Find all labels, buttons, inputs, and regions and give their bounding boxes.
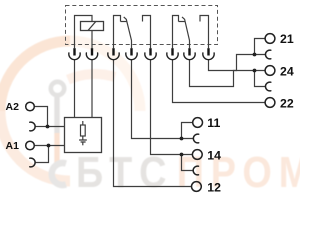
svg-text:A1: A1: [6, 140, 20, 152]
svg-text:22: 22: [280, 96, 294, 110]
svg-text:14: 14: [207, 148, 221, 162]
svg-text:24: 24: [280, 64, 294, 78]
svg-text:11: 11: [207, 116, 220, 130]
svg-text:A2: A2: [6, 101, 20, 113]
svg-text:12: 12: [207, 180, 221, 194]
svg-text:21: 21: [280, 32, 294, 46]
